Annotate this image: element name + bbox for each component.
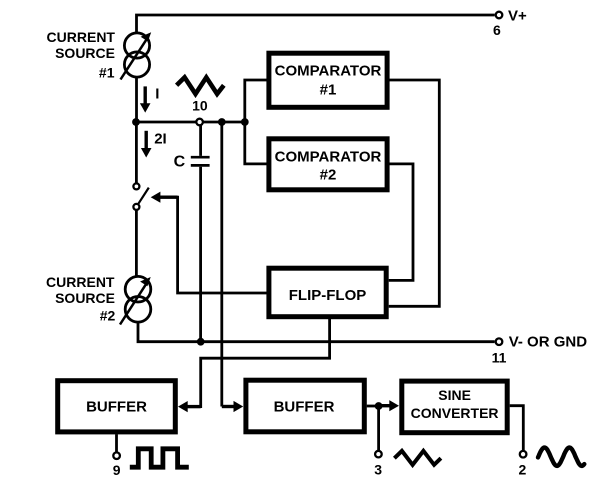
svg-text:SOURCE: SOURCE	[55, 45, 115, 61]
svg-text:CONVERTER: CONVERTER	[411, 405, 499, 421]
svg-text:10: 10	[192, 98, 208, 114]
svg-text:I: I	[155, 86, 159, 103]
svg-text:#1: #1	[99, 64, 115, 80]
svg-text:9: 9	[113, 462, 121, 478]
svg-text:11: 11	[492, 350, 507, 366]
svg-text:#1: #1	[320, 81, 337, 98]
svg-text:2: 2	[519, 461, 527, 477]
svg-text:V- OR GND: V- OR GND	[509, 333, 588, 350]
svg-text:FLIP-FLOP: FLIP-FLOP	[289, 287, 367, 304]
svg-text:BUFFER: BUFFER	[86, 398, 147, 415]
svg-text:CURRENT: CURRENT	[46, 274, 115, 290]
svg-text:#2: #2	[100, 307, 116, 323]
svg-text:6: 6	[493, 22, 501, 38]
svg-text:CURRENT: CURRENT	[47, 29, 116, 45]
svg-text:V+: V+	[508, 8, 527, 25]
svg-text:COMPARATOR: COMPARATOR	[275, 149, 382, 166]
svg-text:SOURCE: SOURCE	[55, 290, 115, 306]
svg-text:SINE: SINE	[438, 387, 471, 403]
svg-text:#2: #2	[320, 167, 337, 184]
svg-text:3: 3	[374, 461, 382, 477]
svg-text:C: C	[174, 153, 186, 170]
svg-text:2I: 2I	[154, 130, 167, 147]
svg-text:COMPARATOR: COMPARATOR	[275, 62, 382, 79]
svg-text:BUFFER: BUFFER	[274, 398, 335, 415]
